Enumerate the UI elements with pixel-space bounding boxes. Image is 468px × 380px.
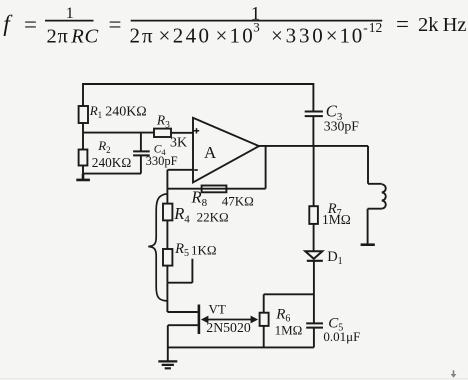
formula: [3, 4, 466, 48]
terminal bar right: [361, 243, 375, 246]
svg-text:A: A: [204, 143, 217, 162]
wire R2 top: [82, 133, 84, 150]
wire R1 bottom: [82, 123, 84, 133]
svg-text:2k Hz: 2k Hz: [418, 14, 467, 36]
wire node row A: [83, 132, 154, 134]
wire C5 bottom: [313, 328, 315, 348]
formula fraction bar 2: [131, 20, 383, 22]
transistor Q1 bar: [198, 305, 201, 335]
resistor R8: [202, 186, 227, 193]
plus sign: [194, 128, 199, 133]
wire feedback vertical: [265, 146, 267, 189]
wire C4 riser: [140, 133, 142, 152]
svg-text:47KΩ: 47KΩ: [222, 193, 254, 208]
wire R5 bottom: [166, 266, 168, 283]
svg-text:=: =: [396, 12, 409, 37]
svg-text:1MΩ: 1MΩ: [322, 212, 351, 227]
wire node row to R6: [264, 293, 314, 295]
svg-text:=: =: [109, 12, 122, 37]
wire D1 to C5: [313, 261, 315, 324]
arrow VT to R6: [207, 319, 252, 321]
svg-text:=: =: [24, 12, 37, 37]
svg-text:×240: ×240: [159, 23, 212, 47]
wire R8 row: [167, 188, 265, 190]
svg-text:240KΩ: 240KΩ: [92, 155, 132, 170]
svg-text:330pF: 330pF: [146, 154, 178, 168]
capacitor C5: [306, 323, 323, 327]
resistor R3: [154, 129, 171, 137]
arrowhead left of VT arrow: [201, 316, 209, 324]
arrowhead right of VT arrow: [251, 316, 259, 324]
wire stub to R5 tap: [167, 259, 192, 283]
svg-text:1: 1: [66, 5, 74, 22]
svg-text:22KΩ: 22KΩ: [197, 210, 229, 225]
wire R3 to +input: [171, 132, 193, 134]
wire output: [259, 145, 368, 147]
diode D1 cathode bar: [307, 260, 323, 262]
resistor R7: [309, 206, 318, 224]
wire coil bottom: [368, 209, 382, 244]
svg-text:VT: VT: [209, 301, 226, 316]
svg-text:×10: ×10: [326, 23, 364, 47]
svg-text:3: 3: [253, 19, 260, 34]
svg-text:×330: ×330: [271, 23, 326, 47]
wire top rail: [83, 84, 313, 112]
wire C3 to output: [312, 116, 314, 146]
ground: [158, 361, 177, 368]
wire chain to VT drain: [167, 283, 197, 312]
svg-text:‑ 12: ‑ 12: [363, 20, 382, 35]
wire VT source to ground: [168, 325, 198, 361]
scroll arrow: [453, 370, 455, 374]
diode D1: [305, 251, 322, 258]
svg-text:330pF: 330pF: [324, 119, 360, 134]
capacitor C3: [305, 112, 323, 117]
wire R2 bottom row: [83, 166, 141, 174]
svg-text:0.01μF: 0.01μF: [323, 329, 360, 344]
wire -input: [167, 170, 193, 189]
brace: [148, 194, 167, 301]
svg-text:2π: 2π: [130, 23, 155, 47]
wire output to coil: [368, 146, 382, 184]
resistor R6: [260, 313, 269, 326]
wire R4 to R5: [166, 220, 168, 249]
inductor L1: [382, 184, 386, 208]
resistor R1: [79, 106, 88, 123]
wire R6 bottom: [263, 326, 265, 348]
op-amp U1: [193, 118, 259, 183]
capacitor C4: [133, 151, 150, 155]
faint page rule: [0, 378, 468, 380]
svg-text:3K: 3K: [170, 135, 187, 150]
resistor R4: [163, 204, 172, 221]
svg-text:1MΩ: 1MΩ: [275, 322, 303, 337]
svg-text:×10: ×10: [216, 23, 255, 47]
wire R6 top: [263, 294, 265, 312]
wire chain to R4: [166, 189, 168, 204]
wire ground rail: [168, 346, 314, 348]
minus sign: [194, 169, 198, 171]
svg-text:2π RC: 2π RC: [47, 25, 100, 47]
wire R7 to D1: [313, 224, 315, 251]
formula fraction bar 1: [45, 20, 94, 22]
resistor R2: [79, 150, 88, 166]
svg-text:1KΩ: 1KΩ: [191, 243, 217, 258]
svg-text:2N5020: 2N5020: [206, 320, 251, 335]
wire C4 bottom: [140, 155, 142, 173]
svg-text:240KΩ: 240KΩ: [105, 105, 147, 120]
wire R7 riser: [313, 146, 315, 206]
terminal bar left: [76, 174, 90, 180]
resistor R5: [163, 249, 172, 266]
